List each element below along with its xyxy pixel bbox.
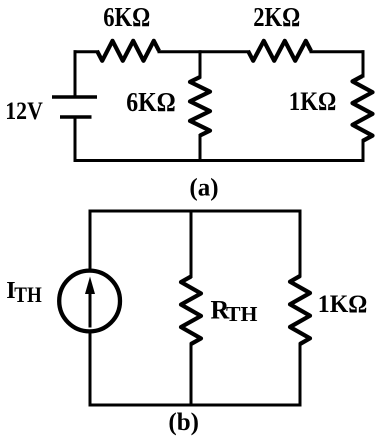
svg-text:1KΩ: 1KΩ: [289, 87, 337, 116]
svg-text:6KΩ: 6KΩ: [126, 87, 176, 117]
svg-text:TH: TH: [14, 282, 42, 307]
svg-text:TH: TH: [226, 302, 258, 326]
svg-text:(b): (b): [168, 409, 199, 436]
svg-text:6KΩ: 6KΩ: [103, 2, 150, 32]
svg-text:1KΩ: 1KΩ: [318, 291, 368, 318]
svg-text:12V: 12V: [5, 98, 43, 125]
svg-text:2KΩ: 2KΩ: [253, 2, 300, 32]
svg-text:(a): (a): [189, 175, 218, 202]
